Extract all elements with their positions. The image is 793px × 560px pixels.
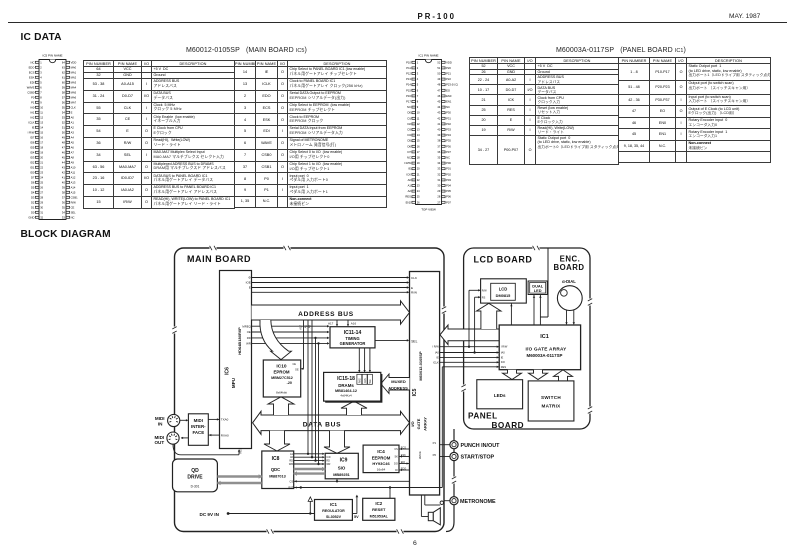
svg-text:CE: CE: [71, 205, 75, 209]
svg-text:A3: A3: [71, 130, 75, 134]
svg-text:D1: D1: [407, 116, 411, 120]
svg-text:D6: D6: [407, 144, 411, 148]
svg-text:P33: P33: [446, 128, 451, 132]
svg-text:D2: D2: [407, 122, 411, 126]
svg-text:ICK: ICK: [501, 360, 506, 364]
svg-text:IA0: IA0: [501, 351, 505, 355]
svg-text:WE: WE: [369, 379, 372, 383]
svg-text:IC1: IC1: [330, 502, 337, 507]
svg-text:ID6: ID6: [30, 140, 35, 144]
svg-text:SIO: SIO: [338, 465, 346, 470]
svg-text:NC: NC: [446, 156, 450, 160]
svg-text:MA0: MA0: [71, 65, 77, 69]
svg-text:EDO: EDO: [401, 467, 406, 470]
svg-text:SWITCH: SWITCH: [541, 395, 561, 400]
svg-text:WAVE: WAVE: [27, 85, 35, 89]
svg-text:D4: D4: [31, 190, 35, 194]
svg-text:FACE: FACE: [192, 430, 204, 435]
svg-text:IE: IE: [32, 125, 35, 129]
svg-text:MA6: MA6: [71, 95, 77, 99]
svg-text:P1: P1: [31, 100, 35, 104]
svg-text:VDD: VDD: [71, 60, 77, 64]
svg-text:GATE: GATE: [416, 418, 421, 429]
svg-text:NC: NC: [446, 105, 450, 109]
svg-text:EN1: EN1: [446, 100, 452, 104]
svg-text:IC10: IC10: [276, 364, 286, 370]
svg-text:P04: P04: [446, 184, 451, 188]
svg-text:D1: D1: [31, 205, 35, 209]
svg-text:P31: P31: [446, 116, 451, 120]
svg-text:ENC.: ENC.: [560, 255, 581, 264]
svg-text:PUNCH IN/OUT: PUNCH IN/OUT: [461, 443, 501, 449]
svg-text:QDC: QDC: [271, 467, 280, 472]
svg-text:TOP VIEW: TOP VIEW: [421, 208, 436, 212]
svg-text:ESK: ESK: [29, 75, 35, 79]
svg-text:A7: A7: [71, 150, 75, 154]
svg-text:I R/W: I R/W: [432, 345, 439, 349]
svg-text:IA0: IA0: [30, 105, 35, 109]
svg-text:D0: D0: [31, 210, 35, 214]
svg-text:IC5: IC5: [412, 388, 418, 396]
svg-text:P35: P35: [446, 139, 451, 143]
svg-text:8x64kbit: 8x64kbit: [276, 391, 287, 395]
svg-text:A14: A14: [71, 185, 76, 189]
svg-text:IC2: IC2: [375, 501, 382, 506]
svg-text:A2: A2: [408, 189, 412, 193]
svg-text:P12: P12: [406, 72, 411, 76]
svg-text:A6: A6: [71, 145, 75, 149]
svg-text:P36: P36: [446, 144, 451, 148]
svg-text:DC 9V IN: DC 9V IN: [200, 512, 220, 517]
svg-text:ESK: ESK: [401, 454, 406, 457]
svg-text:BOARD: BOARD: [492, 421, 525, 430]
svg-text:RD: RD: [247, 336, 251, 340]
svg-text:MA3: MA3: [71, 80, 77, 84]
svg-text:MIDI: MIDI: [194, 418, 203, 423]
svg-text:OE: OE: [295, 368, 299, 371]
svg-text:DRIVE: DRIVE: [187, 474, 203, 480]
svg-text:IC9: IC9: [340, 458, 348, 464]
svg-text:A5: A5: [71, 140, 75, 144]
svg-text:CAS: CAS: [364, 378, 367, 383]
svg-text:IC1: IC1: [540, 334, 549, 340]
svg-text:D5: D5: [407, 139, 411, 143]
svg-text:P05: P05: [446, 189, 451, 193]
svg-text:OUT: OUT: [154, 440, 164, 445]
svg-text:ID1: ID1: [30, 165, 35, 169]
svg-text:ADDRESS BUS: ADDRESS BUS: [298, 311, 354, 318]
svg-text:P01: P01: [446, 167, 451, 171]
svg-text:MB87013: MB87013: [269, 475, 285, 479]
svg-text:ICLK: ICLK: [28, 120, 34, 124]
svg-text:WR: WR: [246, 342, 251, 346]
svg-text:A17: A17: [328, 322, 334, 326]
svg-text:DATA BUS: DATA BUS: [303, 421, 341, 428]
svg-text:P23 (N.C): P23 (N.C): [446, 83, 458, 87]
svg-text:MPU: MPU: [231, 377, 236, 388]
svg-text:P03: P03: [446, 178, 451, 182]
svg-text:P06: P06: [446, 195, 451, 199]
svg-text:P21: P21: [446, 72, 451, 76]
svg-text:ADDRESS: ADDRESS: [388, 385, 408, 390]
svg-text:ICK: ICK: [406, 172, 411, 176]
svg-text:P1: P1: [433, 441, 437, 445]
svg-text:ID7: ID7: [30, 135, 35, 139]
svg-text:P13: P13: [406, 77, 411, 81]
svg-text:I R/W: I R/W: [28, 130, 35, 134]
svg-text:A10: A10: [71, 165, 76, 169]
svg-text:MREQ: MREQ: [242, 324, 251, 328]
svg-text:P15: P15: [406, 88, 411, 92]
svg-text:MA4: MA4: [71, 85, 77, 89]
svg-text:E: E: [71, 110, 73, 114]
svg-text:ID4: ID4: [30, 150, 35, 154]
svg-text:IOE: IOE: [246, 281, 251, 285]
svg-text:R/W: R/W: [411, 291, 417, 295]
svg-text:E: E: [249, 286, 251, 290]
svg-text:IE: IE: [501, 355, 504, 359]
svg-text:CS: CS: [394, 448, 398, 451]
svg-text:I R/W: I R/W: [501, 345, 508, 349]
svg-text:R/W: R/W: [71, 200, 77, 204]
svg-text:EN2: EN2: [406, 200, 412, 204]
svg-text:CS: CS: [290, 480, 294, 483]
svg-text:RES: RES: [501, 365, 507, 369]
svg-text:P32: P32: [446, 122, 451, 126]
svg-text:EDI: EDI: [30, 80, 35, 84]
svg-text:NC: NC: [31, 60, 35, 64]
svg-text:D7: D7: [31, 175, 35, 179]
svg-text:M60003A-0117SP: M60003A-0117SP: [527, 353, 563, 358]
svg-text:RST: RST: [288, 486, 293, 489]
svg-text:P02: P02: [446, 172, 451, 176]
svg-text:GND: GND: [28, 215, 34, 219]
svg-text:EDO: EDO: [29, 65, 35, 69]
svg-text:CSB1: CSB1: [71, 195, 79, 199]
svg-text:RS: RS: [482, 296, 486, 299]
svg-text:ECS: ECS: [29, 70, 35, 74]
svg-text:WAVE: WAVE: [418, 451, 422, 459]
svg-text:D0: D0: [407, 111, 411, 115]
svg-text:DM0815: DM0815: [496, 293, 512, 298]
svg-text:CLK: CLK: [71, 105, 76, 109]
svg-text:IC6: IC6: [225, 367, 231, 375]
svg-text:ID2: ID2: [30, 160, 35, 164]
svg-text:EDI: EDI: [401, 461, 405, 464]
svg-text:IC4: IC4: [377, 449, 385, 455]
svg-text:P10: P10: [406, 60, 411, 64]
svg-text:IE: IE: [436, 355, 439, 359]
svg-text:CSB0: CSB0: [27, 90, 35, 94]
svg-text:IC15-18: IC15-18: [337, 376, 355, 382]
svg-text:NC: NC: [407, 156, 411, 160]
svg-text:START/STOP: START/STOP: [461, 455, 495, 461]
svg-text:A0: A0: [308, 325, 312, 329]
svg-text:D2: D2: [31, 200, 35, 204]
svg-text:-20: -20: [287, 381, 292, 385]
svg-text:QD: QD: [191, 468, 199, 474]
svg-text:P20: P20: [446, 66, 451, 70]
svg-text:5V: 5V: [354, 515, 359, 519]
svg-text:A0: A0: [408, 178, 412, 182]
svg-text:LEDs: LEDs: [494, 393, 506, 398]
svg-text:P0: P0: [31, 95, 35, 99]
svg-text:CE: CE: [293, 363, 297, 366]
svg-text:EPROM: EPROM: [273, 370, 289, 375]
svg-text:VDD: VDD: [446, 60, 452, 64]
svg-text:P00: P00: [446, 161, 451, 165]
svg-text:MUXED: MUXED: [391, 379, 406, 384]
svg-text:IC5 PIN NAME: IC5 PIN NAME: [42, 53, 62, 57]
svg-text:REGULATOR: REGULATOR: [322, 509, 345, 513]
svg-text:RES: RES: [238, 448, 242, 454]
svg-text:METRONOME: METRONOME: [460, 499, 496, 505]
svg-text:NC: NC: [407, 105, 411, 109]
svg-text:HY93C46: HY93C46: [372, 461, 390, 466]
svg-text:IE: IE: [408, 167, 411, 171]
svg-text:P37: P37: [446, 150, 451, 154]
svg-text:D3: D3: [407, 128, 411, 132]
svg-text:EN0: EN0: [446, 94, 452, 98]
svg-text:D6: D6: [31, 180, 35, 184]
svg-text:OE: OE: [247, 330, 251, 334]
svg-text:SEL: SEL: [411, 339, 417, 343]
svg-text:P30: P30: [446, 111, 451, 115]
svg-text:WR: WR: [326, 463, 330, 466]
svg-text:PANEL: PANEL: [468, 412, 498, 421]
svg-text:I R/W: I R/W: [404, 161, 411, 165]
svg-text:P22: P22: [446, 77, 451, 81]
svg-text:ID5: ID5: [30, 145, 35, 149]
svg-text:M60012-0105SP: M60012-0105SP: [418, 351, 423, 381]
svg-text:ID3: ID3: [30, 155, 35, 159]
svg-text:HD64B180R0P: HD64B180R0P: [237, 327, 242, 355]
svg-text:RXA0: RXA0: [221, 433, 229, 437]
svg-text:D3: D3: [31, 195, 35, 199]
svg-text:TXA0: TXA0: [221, 418, 229, 422]
svg-text:MAIN BOARD: MAIN BOARD: [187, 254, 251, 264]
svg-text:A16: A16: [351, 322, 357, 326]
svg-text:SK: SK: [394, 456, 398, 459]
svg-text:DRAMs: DRAMs: [338, 383, 354, 388]
svg-text:IA2: IA2: [30, 115, 35, 119]
svg-text:A15: A15: [71, 190, 76, 194]
svg-text:EEPROM: EEPROM: [372, 455, 391, 460]
svg-text:MA1: MA1: [71, 70, 77, 74]
svg-text:BOARD: BOARD: [553, 263, 584, 272]
svg-text:R/W: R/W: [482, 289, 488, 292]
svg-text:ECS: ECS: [401, 446, 406, 449]
svg-text:GENERATOR: GENERATOR: [340, 341, 366, 346]
svg-text:P16: P16: [406, 94, 411, 98]
svg-text:A2: A2: [71, 125, 75, 129]
svg-text:WR: WR: [289, 463, 293, 466]
svg-text:ID0: ID0: [30, 170, 35, 174]
svg-text:A13: A13: [71, 180, 76, 184]
svg-text:α-DIAL: α-DIAL: [562, 279, 576, 284]
svg-text:RAS: RAS: [359, 378, 362, 383]
svg-text:P14: P14: [406, 83, 411, 87]
svg-text:D4: D4: [407, 133, 411, 137]
svg-text:LCD: LCD: [499, 287, 508, 292]
svg-text:A4: A4: [71, 135, 75, 139]
svg-text:A11: A11: [71, 170, 76, 174]
svg-text:A1: A1: [408, 184, 412, 188]
svg-text:RES: RES: [405, 195, 411, 199]
svg-text:A12: A12: [71, 175, 76, 179]
svg-text:MA5: MA5: [71, 90, 77, 94]
svg-text:P17: P17: [406, 100, 411, 104]
svg-text:MBM27C512: MBM27C512: [271, 376, 293, 380]
svg-text:I/O GATE ARRAY: I/O GATE ARRAY: [525, 346, 567, 351]
svg-text:CLK: CLK: [411, 276, 418, 280]
svg-text:IC1 PIN NAME: IC1 PIN NAME: [418, 53, 438, 57]
svg-text:M51953AL: M51953AL: [370, 515, 389, 519]
svg-text:D7: D7: [407, 150, 411, 154]
svg-text:INTER-: INTER-: [191, 424, 206, 429]
svg-text:IA1: IA1: [30, 110, 35, 114]
svg-text:I/O: I/O: [410, 421, 415, 426]
svg-text:RESET: RESET: [372, 507, 386, 512]
svg-text:MA7: MA7: [71, 100, 77, 104]
svg-text:EO: EO: [446, 88, 450, 92]
svg-text:16x64: 16x64: [377, 467, 386, 471]
svg-text:DO: DO: [394, 463, 398, 466]
svg-text:MA2: MA2: [71, 75, 77, 79]
svg-text:P11: P11: [406, 66, 411, 70]
svg-text:IC8: IC8: [272, 456, 280, 462]
svg-text:A1: A1: [304, 325, 308, 329]
svg-text:P07: P07: [446, 200, 451, 204]
svg-text:A0: A0: [71, 115, 75, 119]
svg-text:MATRIX: MATRIX: [541, 404, 561, 409]
svg-text:TIMING: TIMING: [345, 336, 359, 341]
svg-text:IN: IN: [158, 421, 163, 426]
svg-text:P34: P34: [446, 133, 451, 137]
svg-text:E: E: [411, 286, 413, 290]
svg-text:A9: A9: [71, 160, 75, 164]
svg-text:MB81464-12: MB81464-12: [335, 389, 357, 393]
svg-text:A1: A1: [71, 120, 75, 124]
svg-text:LED: LED: [534, 288, 542, 293]
svg-text:SI-3052V: SI-3052V: [326, 515, 342, 519]
svg-text:SEL: SEL: [71, 210, 77, 214]
svg-text:LCD BOARD: LCD BOARD: [474, 255, 533, 265]
svg-text:A8: A8: [71, 155, 75, 159]
svg-text:NC: NC: [71, 215, 75, 219]
svg-text:ICLK: ICLK: [433, 360, 439, 364]
svg-text:4x64Kx4: 4x64Kx4: [340, 394, 352, 398]
svg-text:D5: D5: [31, 185, 35, 189]
svg-text:DI: DI: [395, 469, 398, 472]
svg-text:MB89251: MB89251: [333, 473, 349, 477]
svg-text:IA0: IA0: [435, 351, 439, 355]
svg-text:P0: P0: [433, 453, 437, 457]
svg-text:ARRAY: ARRAY: [422, 417, 427, 431]
svg-text:D-301: D-301: [191, 485, 200, 489]
svg-text:A17: A17: [299, 325, 303, 330]
